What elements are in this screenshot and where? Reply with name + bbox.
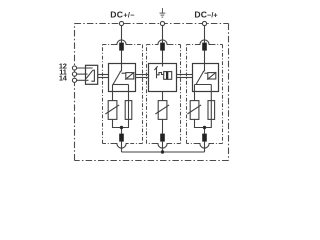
remote contact box FM: [86, 65, 98, 84]
earth symbol: [160, 8, 166, 17]
plug contact top module 2: [160, 43, 165, 51]
wire bar to varistor: [194, 85, 196, 101]
wire bar to varistor: [112, 85, 114, 101]
U3 monitor varistor icon: [208, 73, 216, 79]
monitoring link FM to module 1: [98, 74, 109, 76]
module 2 dash-dot box: [147, 45, 181, 144]
varistor RV3 (module 3): [190, 101, 199, 120]
wire module2 to bus: [162, 142, 164, 152]
U3 pivot bar: [195, 84, 212, 86]
bus junction: [161, 150, 164, 153]
module 3 plug arcs: [197, 40, 211, 45]
module 1 dash-dot box: [103, 45, 143, 144]
terminal 14: [72, 78, 76, 82]
U2 top stub: [162, 64, 164, 67]
fuse F1 (module 1): [125, 101, 132, 120]
terminal 12: [72, 66, 76, 70]
U1 monitor varistor icon: [126, 73, 134, 79]
terminal DC+: [119, 21, 123, 25]
plug contact bottom module 1: [119, 134, 124, 142]
svg-text:DC+/−: DC+/−: [110, 9, 135, 19]
wire DC+ terminal to module 1: [121, 26, 123, 43]
disconnector box U1 (module 1): [109, 64, 136, 92]
wire DC- terminal to module 3: [204, 26, 206, 43]
RV2 bottom wire: [162, 119, 164, 133]
varistor RV2 (module 2): [158, 101, 167, 120]
module 1 branch join: [113, 119, 129, 127]
terminal 11: [72, 72, 76, 76]
U1 pivot bar: [113, 84, 129, 86]
svg-text:14: 14: [59, 74, 68, 83]
U3 switch blade: [196, 71, 204, 85]
U3 wire in: [204, 64, 206, 72]
RV2 top wire: [162, 92, 164, 101]
plug contact top module 1: [119, 43, 124, 51]
wire terminal 12: [77, 67, 93, 69]
module 1 plug arcs: [114, 40, 128, 45]
plug contact bottom module 2: [160, 134, 165, 142]
U1 switch blade: [113, 71, 121, 85]
FM blade: [86, 70, 93, 78]
U2 gdt icon: [164, 72, 172, 80]
varistor RV1 (module 1): [108, 101, 117, 120]
module 3 branch join: [195, 119, 212, 127]
spark gap box U2 (module 2): [149, 64, 177, 92]
monitoring link module 1 to module 2: [136, 74, 149, 76]
wire bar to fuse: [128, 85, 130, 101]
terminal PE: [160, 21, 164, 25]
U2 electrode slash: [154, 66, 157, 70]
wire terminal 11: [77, 73, 88, 75]
earth bus: [122, 151, 205, 153]
U3 link to monitor: [205, 72, 208, 74]
wire PE terminal to module 2: [162, 26, 164, 43]
plug contact bottom module 3: [202, 134, 207, 142]
module 2 plug arcs: [155, 40, 169, 45]
U1 wire in: [121, 64, 123, 72]
U1 contact tick: [120, 70, 122, 71]
U1 link to monitor: [122, 72, 126, 74]
enclosure dashed border: [75, 24, 229, 161]
disconnector box U3 (module 3): [193, 64, 219, 92]
plug contact top module 3: [202, 43, 207, 51]
wire module1 to bus: [121, 142, 123, 152]
U3 contact tick: [203, 70, 205, 71]
FM top link: [91, 70, 94, 81]
svg-text:DC−/+: DC−/+: [194, 9, 217, 19]
wire bar to fuse: [210, 85, 212, 101]
U2 step link: [157, 73, 164, 75]
wire terminal 14: [77, 79, 89, 81]
terminal DC-: [202, 21, 206, 25]
wire module3 to bus: [204, 142, 206, 152]
monitoring link module 2 to module 3: [177, 74, 193, 76]
U2 electrode: [156, 67, 158, 78]
module 3 dash-dot box: [187, 45, 223, 144]
fuse F3 (module 3): [208, 101, 215, 120]
